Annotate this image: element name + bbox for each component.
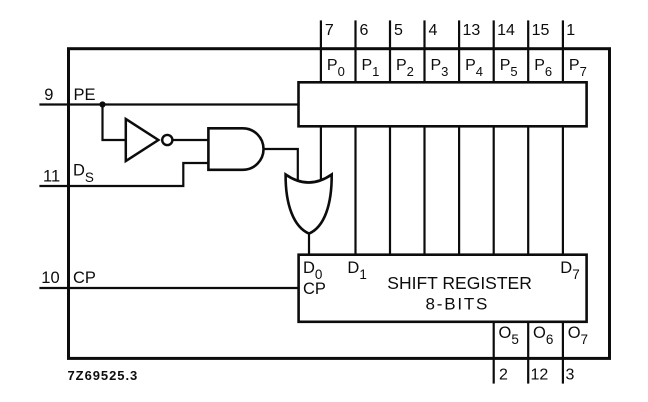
svg-text:3: 3 [566,367,575,384]
svg-text:11: 11 [43,168,60,186]
shift register box [299,255,587,322]
wire pin 4 (P3 top lead) [423,22,425,83]
wire P0 column into OR gate right input [320,126,322,182]
wire O7 output (pin 3) [562,322,564,383]
wire PE to inverter [103,105,126,141]
wire AND output to OR gate left input [264,149,298,182]
svg-text:1: 1 [566,22,575,39]
wire OR output to D0 [308,234,310,255]
outer IC boundary box [69,49,610,359]
wire pin 6 (P1 top lead) [354,22,356,83]
inverter U1 triangle [126,119,159,161]
svg-text:8-BITS: 8-BITS [426,294,490,313]
wire CP input (pin 10) [41,287,299,289]
svg-text:10: 10 [41,269,59,287]
or-gate U3 [286,175,332,234]
inverter U1 bubble [162,135,172,145]
svg-text:4: 4 [429,22,438,39]
svg-text:7: 7 [325,22,334,39]
node PE junction [99,101,105,107]
wire DS input (pin 11) [41,163,209,186]
svg-text:7Z69525.3: 7Z69525.3 [68,368,139,383]
svg-text:9: 9 [44,86,53,104]
wire O6 output (pin 12) [527,322,529,383]
wire pin 1 (P7 top lead) [562,22,564,83]
wire PE input (pin 9) [41,103,299,105]
and-gate U2 [208,128,263,170]
wire O5 output (pin 2) [493,322,495,383]
wire D1 column [354,126,356,254]
wire D3 column [423,126,425,254]
wire pin 15 (P6 top lead) [527,22,529,83]
wire D5 column [493,126,495,254]
svg-text:PE: PE [74,86,96,104]
svg-text:6: 6 [360,22,369,39]
svg-text:CP: CP [303,280,326,298]
parallel input register box [299,82,587,126]
wire pin 5 (P2 top lead) [389,22,391,83]
svg-text:15: 15 [532,22,550,39]
svg-text:13: 13 [463,22,481,39]
wire pin 7 (P0 top lead) [320,22,322,83]
svg-text:5: 5 [394,22,403,39]
svg-text:2: 2 [499,367,508,384]
wire D6 column [527,126,529,254]
wire pin 13 (P4 top lead) [458,22,460,83]
svg-text:CP: CP [73,269,96,287]
svg-text:SHIFT REGISTER: SHIFT REGISTER [387,273,532,293]
wire D7 column [562,126,564,254]
svg-text:12: 12 [531,367,549,384]
wire D2 column [389,126,391,254]
wire inverter output to AND gate [173,139,209,141]
svg-text:14: 14 [497,22,515,39]
wire D4 column [458,126,460,254]
wire pin 14 (P5 top lead) [493,22,495,83]
